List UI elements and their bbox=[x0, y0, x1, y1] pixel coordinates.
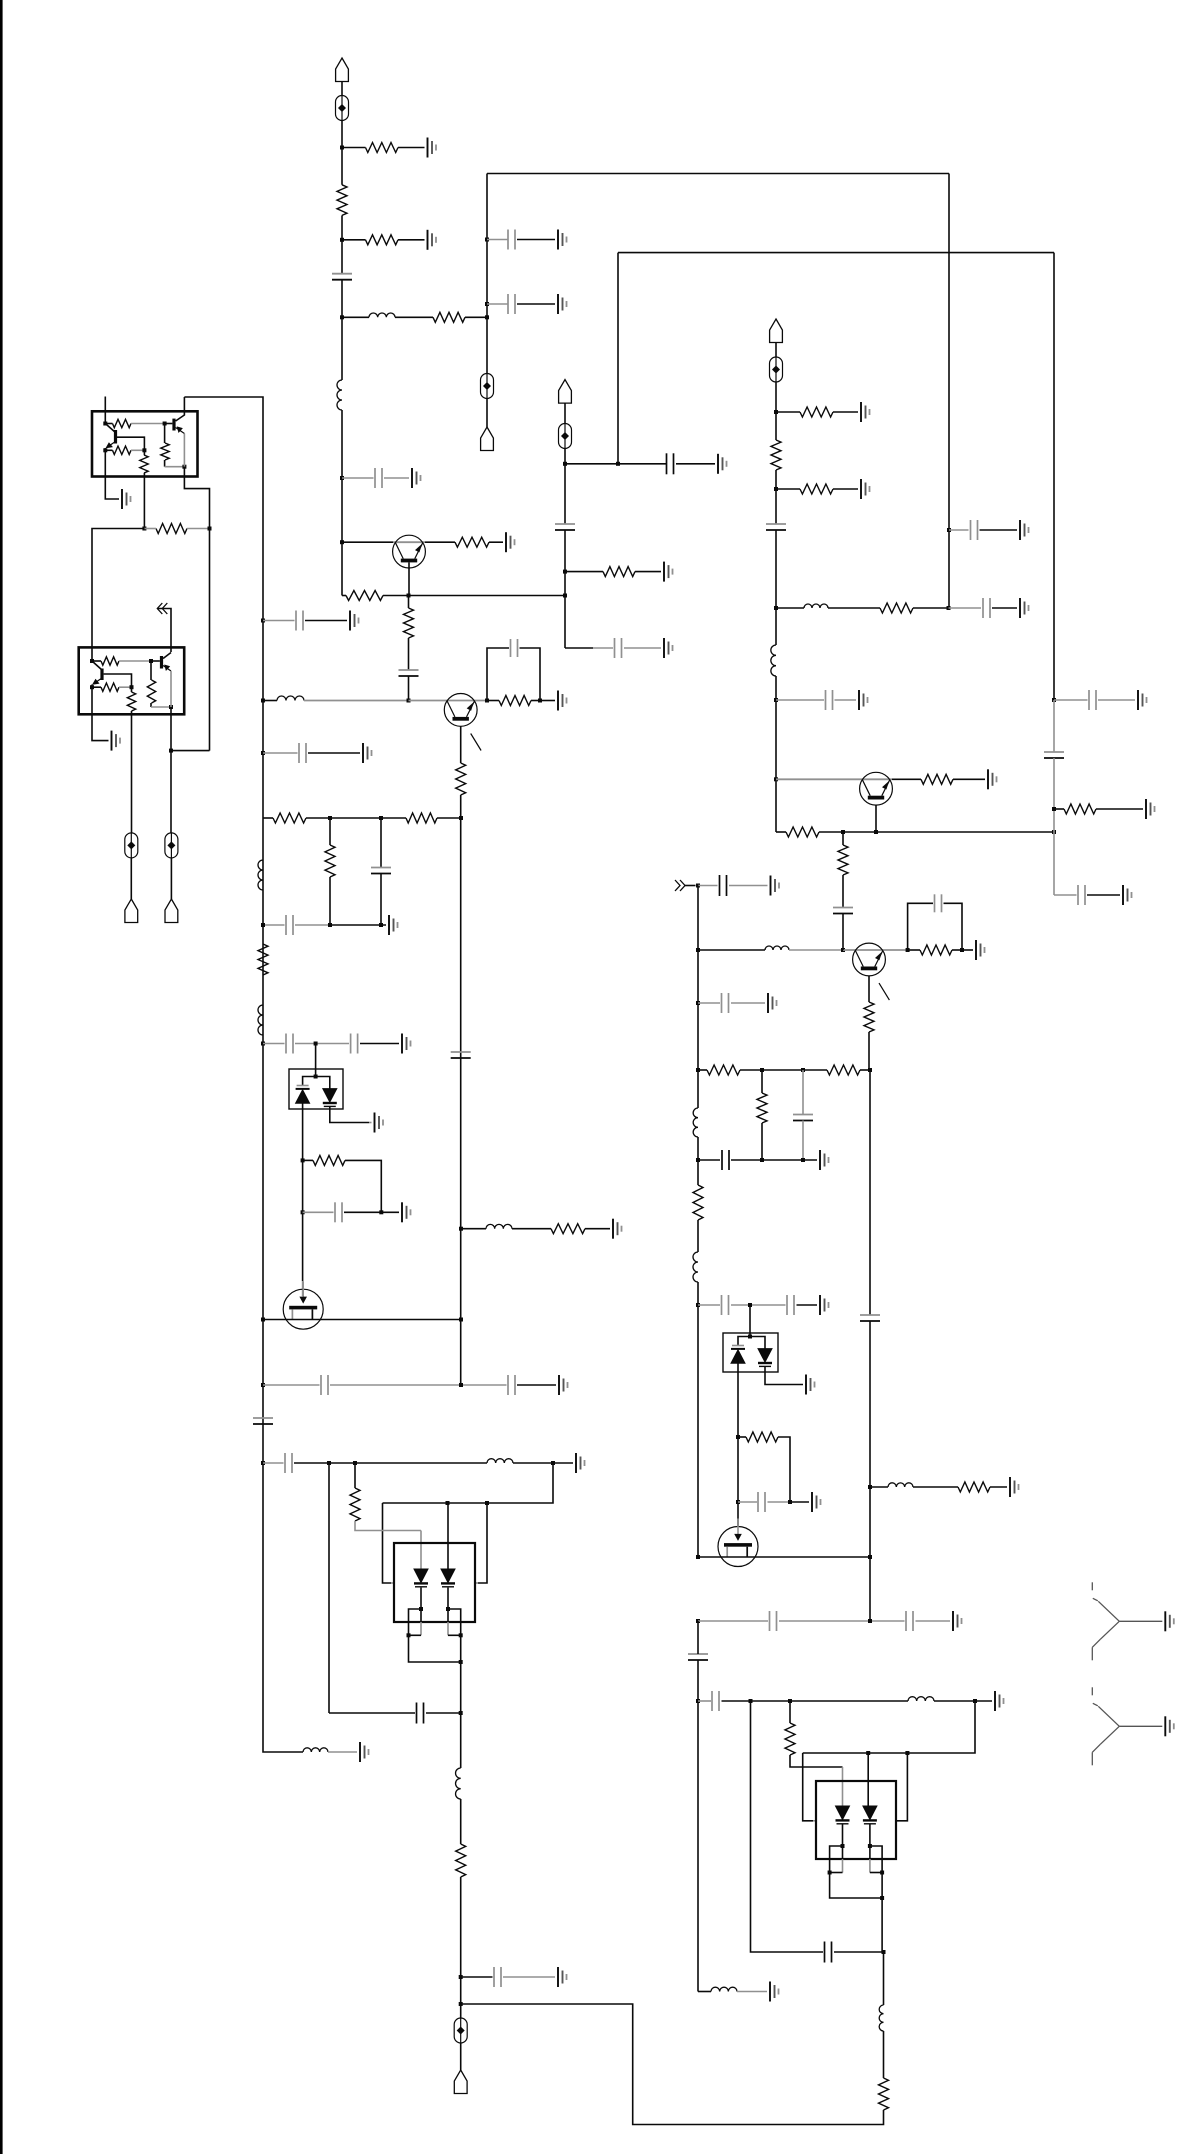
ground GND3 bbox=[558, 230, 567, 250]
wire bbox=[395, 316, 433, 318]
wire bbox=[170, 858, 172, 899]
wire bbox=[842, 1846, 844, 1859]
wire bbox=[398, 239, 425, 241]
wire bbox=[819, 831, 1054, 833]
junction bbox=[841, 948, 845, 952]
ground GND38 bbox=[995, 1691, 1004, 1711]
wire bbox=[740, 1069, 827, 1071]
wire bbox=[474, 1582, 478, 1584]
wire bbox=[962, 949, 973, 951]
wire bbox=[380, 874, 382, 926]
wire bbox=[171, 750, 210, 752]
junction bbox=[905, 1751, 909, 1755]
junction bbox=[749, 1699, 753, 1703]
junction bbox=[314, 1042, 318, 1046]
junction bbox=[868, 1068, 872, 1072]
wire bbox=[761, 1123, 763, 1160]
wire bbox=[408, 638, 410, 670]
emitter bbox=[176, 427, 185, 433]
capacitor C27 bbox=[494, 1967, 501, 1987]
wire bbox=[165, 423, 173, 425]
resistor R11 bbox=[258, 944, 268, 975]
resistor R1 bbox=[366, 143, 399, 153]
junction bbox=[1052, 807, 1056, 811]
wire bbox=[460, 726, 462, 763]
junction bbox=[446, 1607, 450, 1611]
wire bbox=[460, 1799, 462, 1844]
ground GND37 bbox=[953, 1611, 962, 1631]
capacitor C13 bbox=[296, 611, 303, 631]
inductor L9 bbox=[486, 1224, 512, 1228]
capacitor C43 bbox=[1089, 690, 1096, 710]
wire bbox=[892, 778, 921, 780]
wire bbox=[842, 1825, 844, 1847]
wire bbox=[1054, 699, 1088, 701]
wire bbox=[329, 818, 331, 845]
wire bbox=[105, 449, 112, 451]
wire bbox=[813, 1820, 817, 1822]
diode pair box U6 bbox=[816, 1781, 896, 1859]
wire bbox=[489, 541, 503, 543]
resistor R17 bbox=[406, 813, 437, 823]
inductor L1 bbox=[369, 313, 395, 317]
wire bbox=[775, 382, 777, 440]
wire bbox=[342, 477, 374, 479]
junction bbox=[169, 705, 173, 709]
wire bbox=[697, 1282, 699, 1557]
junction bbox=[103, 448, 107, 452]
ground GND30 bbox=[976, 940, 985, 960]
resistor R14 bbox=[499, 696, 531, 706]
capacitor C22 bbox=[451, 1052, 471, 1058]
ground GND36 bbox=[1010, 1477, 1019, 1497]
wire bbox=[308, 752, 360, 754]
wire bbox=[105, 424, 115, 433]
resistor R24 bbox=[113, 446, 132, 454]
wire bbox=[768, 1501, 791, 1503]
wire bbox=[465, 316, 487, 318]
junction bbox=[868, 1619, 872, 1623]
wire bbox=[131, 423, 165, 425]
wire bbox=[380, 818, 382, 867]
wire bbox=[676, 463, 715, 465]
wire bbox=[842, 914, 844, 951]
resistor R23 bbox=[113, 419, 132, 427]
wire bbox=[617, 253, 619, 464]
wire bbox=[722, 1700, 909, 1702]
wire bbox=[1098, 699, 1135, 701]
junction bbox=[459, 1975, 463, 1979]
capacitor C5 bbox=[983, 598, 990, 618]
wire bbox=[1053, 253, 1055, 700]
ground GND12 bbox=[859, 690, 868, 710]
junction bbox=[882, 1950, 886, 1954]
wire bbox=[972, 1700, 992, 1702]
wire bbox=[776, 778, 892, 780]
wire bbox=[328, 1463, 330, 1713]
inductor L7 bbox=[303, 1748, 328, 1752]
wire bbox=[460, 1315, 462, 1385]
wire bbox=[92, 529, 144, 662]
junction bbox=[328, 923, 332, 927]
resistor R28 bbox=[101, 657, 119, 665]
wire bbox=[698, 1700, 711, 1702]
MOSFET M2 bbox=[718, 1527, 758, 1567]
capacitor C26 bbox=[417, 1703, 424, 1724]
junction bbox=[182, 465, 186, 469]
wire bbox=[91, 685, 93, 736]
junction bbox=[459, 1711, 463, 1715]
wire bbox=[448, 1634, 461, 1636]
junction bbox=[459, 1318, 463, 1322]
varactor D5 bbox=[731, 1350, 745, 1364]
wire bbox=[303, 1159, 313, 1161]
emitter bbox=[107, 442, 116, 448]
port P6 bbox=[125, 899, 138, 923]
wire bbox=[341, 410, 343, 596]
inductor L15 bbox=[888, 1483, 913, 1487]
resistor R36 bbox=[757, 1093, 767, 1123]
resistor R7 bbox=[771, 440, 781, 470]
resistor R3 bbox=[366, 235, 399, 245]
wire bbox=[119, 686, 132, 688]
ground GND18 bbox=[558, 691, 567, 711]
wire bbox=[883, 2031, 885, 2078]
wire bbox=[842, 832, 844, 845]
wire bbox=[302, 1160, 304, 1281]
resistor R33 bbox=[864, 1002, 874, 1032]
junction bbox=[801, 1068, 805, 1072]
resistor R4 bbox=[433, 312, 465, 322]
test point TP3 bbox=[559, 424, 572, 449]
ground GND29 bbox=[771, 876, 780, 896]
wire bbox=[833, 411, 858, 413]
ground GND27 bbox=[122, 489, 131, 509]
wire bbox=[383, 1463, 554, 1503]
junction bbox=[90, 685, 94, 689]
wire bbox=[117, 437, 144, 450]
ground GND41 bbox=[1138, 690, 1147, 710]
wire bbox=[765, 1367, 803, 1385]
wire bbox=[869, 1825, 871, 1847]
wire bbox=[420, 1588, 422, 1609]
wire bbox=[461, 1976, 493, 1978]
wire bbox=[329, 877, 331, 925]
resistor R18 bbox=[325, 845, 335, 877]
wire bbox=[420, 1609, 422, 1622]
resistor R42 bbox=[921, 774, 953, 784]
wire bbox=[164, 424, 166, 444]
ground GND23 bbox=[613, 1219, 622, 1239]
wire bbox=[381, 1211, 399, 1213]
resistor R15 bbox=[456, 763, 466, 795]
resistor R26 bbox=[161, 443, 169, 460]
wire bbox=[460, 1635, 462, 1768]
resistor R25 bbox=[140, 455, 148, 473]
resistor R5 bbox=[603, 567, 635, 577]
junction bbox=[960, 948, 964, 952]
wire bbox=[776, 607, 804, 609]
ground GND43 bbox=[1123, 885, 1132, 905]
resistor R9 bbox=[880, 603, 913, 613]
inductor L17 bbox=[711, 1987, 737, 1991]
transistor Q2 bbox=[393, 535, 426, 568]
bias network box U3 bbox=[92, 411, 198, 476]
ground GND6 bbox=[1020, 598, 1029, 618]
ground GND11 bbox=[861, 479, 870, 499]
inductor L13 bbox=[693, 1108, 698, 1137]
capacitor C6 bbox=[667, 453, 674, 474]
junction bbox=[748, 1335, 752, 1339]
wire bbox=[393, 541, 425, 543]
wire bbox=[761, 1070, 763, 1093]
wire bbox=[170, 671, 172, 707]
page edge bar bbox=[0, 0, 3, 2154]
wire bbox=[143, 450, 145, 455]
wire bbox=[384, 477, 409, 479]
junction bbox=[841, 830, 845, 834]
inductor L14 bbox=[693, 1252, 698, 1282]
wire bbox=[565, 571, 603, 573]
test point TP7 bbox=[165, 833, 178, 858]
wire bbox=[176, 397, 185, 421]
junction bbox=[868, 1844, 872, 1848]
resistor R20 bbox=[551, 1224, 585, 1234]
wire bbox=[776, 411, 800, 413]
wire bbox=[564, 449, 566, 525]
junction bbox=[696, 1068, 700, 1072]
junction bbox=[261, 1042, 265, 1046]
wire bbox=[775, 470, 777, 524]
wire bbox=[775, 343, 777, 358]
capacitor C10 bbox=[826, 690, 833, 710]
wire bbox=[843, 949, 908, 951]
wire bbox=[778, 1437, 790, 1502]
wire bbox=[437, 817, 461, 819]
wire bbox=[624, 647, 661, 649]
varactor D2 bbox=[323, 1089, 337, 1103]
transistor Q8 bbox=[860, 772, 893, 805]
wire bbox=[869, 1321, 871, 1621]
wire bbox=[729, 885, 768, 887]
junction bbox=[327, 1461, 331, 1465]
wire bbox=[868, 976, 870, 1002]
wire bbox=[949, 529, 969, 531]
capacitor C17 bbox=[371, 868, 391, 874]
wire bbox=[738, 1501, 757, 1503]
wire bbox=[460, 2043, 462, 2070]
capacitor C3 bbox=[508, 294, 515, 314]
wire bbox=[897, 1753, 907, 1821]
junction bbox=[103, 422, 107, 426]
wire bbox=[183, 434, 185, 467]
junction bbox=[696, 1158, 700, 1162]
wire bbox=[131, 711, 133, 833]
wire bbox=[697, 1621, 699, 1654]
wire bbox=[775, 676, 777, 832]
wire bbox=[750, 1337, 765, 1349]
capacitor C44 bbox=[1044, 752, 1064, 758]
wire bbox=[565, 463, 666, 465]
resistor R44 bbox=[838, 845, 848, 875]
inductor L5 bbox=[258, 860, 263, 890]
wire bbox=[870, 1486, 888, 1488]
capacitor C25 bbox=[285, 1453, 292, 1473]
wire bbox=[731, 1159, 817, 1161]
ground GND33 bbox=[820, 1295, 829, 1315]
wire bbox=[447, 1609, 449, 1622]
inductor L16 bbox=[908, 1697, 934, 1701]
wire bbox=[263, 1043, 285, 1045]
wire bbox=[303, 1077, 316, 1086]
wire bbox=[869, 1070, 871, 1315]
junction bbox=[301, 1158, 305, 1162]
capacitor C35 bbox=[758, 1492, 765, 1512]
wire bbox=[698, 1620, 768, 1622]
junction bbox=[868, 1485, 872, 1489]
wire bbox=[564, 403, 566, 424]
wire bbox=[1054, 808, 1064, 810]
wire bbox=[131, 687, 133, 692]
junction bbox=[149, 659, 153, 663]
junction bbox=[142, 448, 146, 452]
ground GND14 bbox=[412, 468, 421, 488]
wire bbox=[1053, 700, 1055, 752]
wire bbox=[860, 1069, 870, 1071]
resistor R12 bbox=[346, 591, 383, 601]
capacitor C1 bbox=[332, 274, 352, 280]
junction bbox=[379, 1210, 383, 1214]
wire bbox=[391, 1582, 395, 1584]
resistor R10 bbox=[455, 537, 489, 547]
wire bbox=[934, 1700, 972, 1702]
wire bbox=[1087, 894, 1120, 896]
wire bbox=[698, 885, 718, 887]
junction bbox=[340, 540, 344, 544]
junction bbox=[760, 1158, 764, 1162]
junction bbox=[379, 923, 383, 927]
wire bbox=[842, 875, 844, 907]
wire bbox=[834, 1951, 884, 1953]
junction bbox=[208, 527, 212, 531]
wire bbox=[565, 647, 593, 649]
wire bbox=[316, 1077, 330, 1089]
port P1 bbox=[336, 58, 349, 82]
junction bbox=[774, 606, 778, 610]
wire bbox=[698, 1991, 711, 1993]
capacitor C33 bbox=[722, 1295, 729, 1315]
wire bbox=[944, 903, 963, 950]
wire bbox=[425, 541, 455, 543]
wire bbox=[355, 1521, 421, 1531]
junction bbox=[340, 315, 344, 319]
wire bbox=[487, 648, 509, 701]
wire bbox=[531, 700, 540, 702]
ground GND45 bbox=[1165, 1716, 1174, 1736]
wire bbox=[104, 448, 106, 494]
transistor Q6 bbox=[100, 669, 103, 681]
capacitor C19 bbox=[286, 1034, 293, 1054]
inductor L4 bbox=[771, 645, 776, 676]
wire bbox=[553, 1462, 573, 1464]
capacitor C24 bbox=[508, 1375, 515, 1395]
junction bbox=[1052, 830, 1056, 834]
wire bbox=[151, 706, 171, 708]
transistor Q7 bbox=[853, 943, 886, 976]
wire bbox=[833, 488, 858, 490]
MOSFET M1 bbox=[283, 1289, 323, 1329]
junction bbox=[774, 487, 778, 491]
capacitor C38 bbox=[906, 1611, 913, 1631]
resistor R43 bbox=[786, 827, 819, 837]
capacitor C9 bbox=[766, 524, 786, 530]
wire bbox=[130, 858, 132, 899]
emitter bbox=[163, 665, 171, 671]
ground GND26 bbox=[558, 1967, 567, 1987]
wire bbox=[948, 174, 950, 609]
wire bbox=[342, 316, 369, 318]
junction bbox=[340, 476, 344, 480]
port P2 bbox=[481, 427, 494, 451]
wire bbox=[585, 1228, 610, 1230]
junction bbox=[696, 948, 700, 952]
wire bbox=[408, 563, 410, 596]
capacitor C20 bbox=[351, 1034, 358, 1054]
wire bbox=[952, 949, 962, 951]
junction bbox=[774, 410, 778, 414]
wire bbox=[698, 1304, 720, 1306]
resistor R37 bbox=[693, 1185, 703, 1220]
transistor Q3 bbox=[114, 430, 117, 444]
ground GND22 bbox=[402, 1202, 411, 1222]
wire bbox=[802, 1121, 804, 1161]
ground GND31 bbox=[768, 993, 777, 1013]
junction bbox=[563, 462, 567, 466]
inductor L12 bbox=[765, 946, 789, 950]
transistor Q5 bbox=[160, 656, 163, 669]
wire bbox=[564, 530, 566, 648]
junction bbox=[261, 1318, 265, 1322]
wire bbox=[305, 620, 347, 622]
wire bbox=[461, 1228, 486, 1230]
wire bbox=[685, 885, 696, 887]
wire bbox=[870, 1846, 882, 1873]
wire bbox=[737, 1363, 739, 1437]
wire bbox=[408, 676, 410, 701]
wire bbox=[520, 648, 541, 701]
resistor R41 bbox=[879, 2078, 889, 2110]
wire bbox=[165, 466, 185, 468]
wire bbox=[875, 805, 877, 832]
junction bbox=[874, 830, 878, 834]
junction bbox=[169, 749, 173, 753]
wire bbox=[828, 607, 880, 609]
wire bbox=[830, 1846, 843, 1873]
wire bbox=[187, 528, 210, 530]
varactor D8 bbox=[863, 1806, 877, 1820]
junction bbox=[563, 594, 567, 598]
wire bbox=[342, 541, 393, 543]
wire bbox=[447, 1503, 449, 1569]
capacitor C18 bbox=[286, 915, 293, 935]
wire bbox=[263, 1462, 284, 1464]
wire bbox=[328, 1751, 357, 1753]
resistor R19 bbox=[313, 1155, 345, 1165]
ground GND8 bbox=[664, 562, 673, 582]
junction bbox=[538, 699, 542, 703]
varactor D4 bbox=[441, 1569, 455, 1583]
junction bbox=[328, 816, 332, 820]
